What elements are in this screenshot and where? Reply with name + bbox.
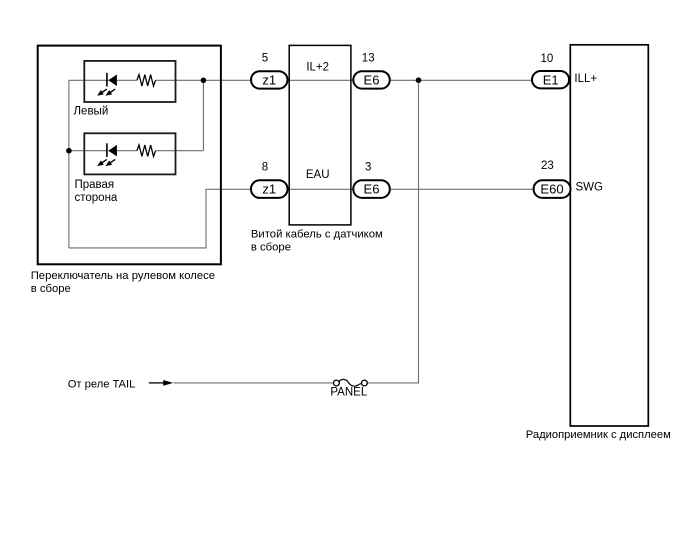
pin z1 (top): [251, 71, 288, 88]
LED D2 cathode bar: [106, 143, 108, 157]
pin E6 (bottom): [353, 180, 390, 198]
svg-text:z1: z1: [262, 182, 276, 197]
svg-text:в сборе: в сборе: [251, 242, 291, 254]
spiral cable with sensor block: [289, 45, 351, 225]
wire vertical from PANEL row to ILL junction: [367, 80, 418, 383]
pin E60: [534, 180, 571, 198]
svg-text:в сборе: в сборе: [31, 283, 71, 295]
junction node row2 left: [66, 148, 72, 154]
svg-text:От реле TAIL: От реле TAIL: [68, 378, 136, 390]
svg-text:ILL+: ILL+: [574, 73, 597, 85]
pin z1 (bottom): [251, 180, 288, 198]
right LED module box: [84, 133, 175, 174]
svg-text:Правая: Правая: [75, 179, 115, 191]
wire row1 from left vertical to E1: [69, 79, 532, 81]
LED D1 triangle: [108, 75, 117, 87]
circuit breaker PANEL symbol: [334, 380, 340, 386]
pin E1: [532, 71, 569, 88]
wire right vertical joining row2 to row1 junction: [202, 80, 204, 150]
svg-text:E1: E1: [543, 72, 559, 87]
svg-text:z1: z1: [262, 73, 276, 88]
svg-text:EAU: EAU: [306, 169, 330, 181]
svg-text:IL+2: IL+2: [306, 62, 329, 74]
wire bottom loop to z1 pin row: [69, 189, 251, 248]
svg-text:5: 5: [262, 53, 268, 65]
svg-text:3: 3: [365, 161, 371, 173]
radio receiver with display box: [570, 45, 648, 426]
LED D2 triangle: [108, 145, 117, 157]
svg-text:E60: E60: [540, 182, 563, 197]
wire from TAIL arrow to PANEL symbol: [174, 382, 334, 384]
wire bottom row z1 to E60: [251, 188, 533, 190]
svg-text:Левый: Левый: [74, 106, 109, 118]
svg-text:сторона: сторона: [75, 192, 118, 204]
pin E6 (top): [353, 71, 390, 88]
svg-text:23: 23: [541, 160, 554, 172]
resistor R2: [137, 145, 156, 156]
junction node row1 right: [201, 78, 207, 84]
svg-text:8: 8: [262, 161, 268, 173]
junction node on ILL wire: [416, 77, 422, 83]
svg-text:Радиоприемник с дисплеем: Радиоприемник с дисплеем: [526, 429, 671, 441]
steering wheel switch assembly box: [38, 46, 221, 265]
wire row2 LED2 branch: [69, 150, 204, 152]
svg-text:10: 10: [541, 53, 554, 65]
svg-text:E6: E6: [364, 73, 380, 88]
LED D2 emission arrows: [96, 157, 117, 168]
LED D1 cathode bar: [106, 73, 108, 87]
svg-text:SWG: SWG: [576, 182, 604, 194]
wire left vertical inside switch box: [68, 80, 70, 248]
svg-text:13: 13: [362, 53, 375, 65]
left LED module box: [84, 61, 175, 102]
svg-text:Витой кабель с датчиком: Витой кабель с датчиком: [251, 229, 383, 241]
arrow from TAIL relay: [149, 382, 164, 384]
svg-text:PANEL: PANEL: [330, 387, 367, 399]
resistor R1: [137, 75, 156, 86]
LED D1 emission arrows: [96, 87, 117, 98]
svg-text:E6: E6: [364, 182, 380, 197]
svg-text:Переключатель на рулевом колес: Переключатель на рулевом колесе: [31, 270, 215, 282]
